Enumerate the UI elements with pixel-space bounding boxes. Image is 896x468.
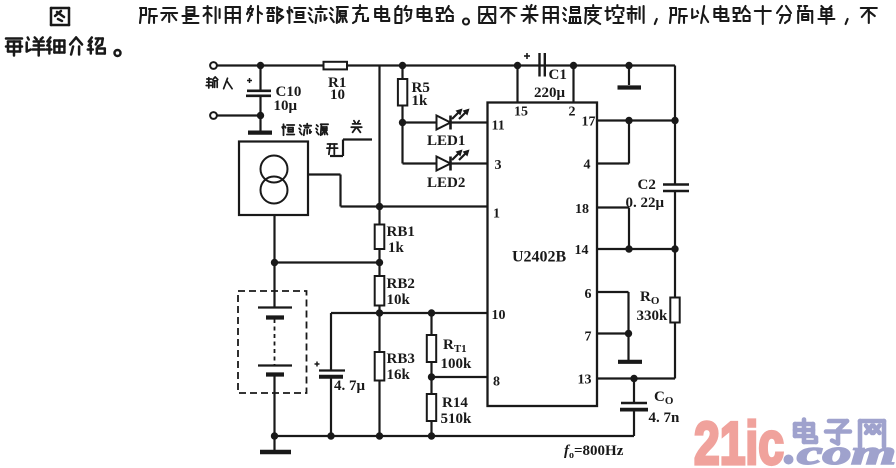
svg-text:330k: 330k (637, 308, 669, 324)
svg-text:7: 7 (585, 330, 592, 345)
svg-text:1k: 1k (388, 240, 405, 256)
svg-text:1k: 1k (412, 93, 429, 109)
svg-text:15: 15 (514, 105, 528, 120)
svg-text:2: 2 (569, 105, 576, 120)
svg-text:10: 10 (492, 308, 506, 323)
svg-text:3: 3 (495, 158, 502, 173)
svg-text:1: 1 (493, 207, 500, 222)
svg-text:11: 11 (492, 119, 505, 134)
svg-text:100k: 100k (441, 356, 473, 372)
svg-text:C1: C1 (549, 67, 567, 83)
svg-text:510k: 510k (441, 411, 473, 427)
svg-text:10: 10 (330, 87, 345, 103)
svg-text:10μ: 10μ (274, 98, 298, 114)
svg-text:RB1: RB1 (387, 224, 415, 240)
svg-text:8: 8 (493, 375, 500, 390)
svg-text:com: com (797, 435, 896, 468)
svg-text:RB3: RB3 (387, 351, 415, 367)
svg-text:U2402B: U2402B (512, 249, 567, 266)
svg-text:6: 6 (585, 287, 592, 302)
svg-text:4: 4 (584, 158, 591, 173)
svg-text:21ic: 21ic (694, 410, 784, 468)
svg-text:4. 7μ: 4. 7μ (334, 378, 366, 394)
svg-text:14: 14 (575, 243, 589, 258)
svg-text:LED1: LED1 (427, 133, 465, 149)
svg-text:18: 18 (575, 202, 589, 217)
svg-text:C2: C2 (638, 177, 656, 193)
svg-text:220μ: 220μ (534, 85, 566, 101)
svg-text:10k: 10k (387, 292, 411, 308)
svg-text:16k: 16k (387, 367, 411, 383)
svg-text:13: 13 (578, 373, 592, 388)
svg-text:LED2: LED2 (427, 175, 465, 191)
svg-text:R14: R14 (442, 395, 468, 411)
svg-text:17: 17 (582, 115, 596, 130)
svg-text:RB2: RB2 (387, 276, 415, 292)
svg-text:4. 7n: 4. 7n (649, 410, 681, 426)
svg-text:0. 22μ: 0. 22μ (626, 195, 665, 211)
